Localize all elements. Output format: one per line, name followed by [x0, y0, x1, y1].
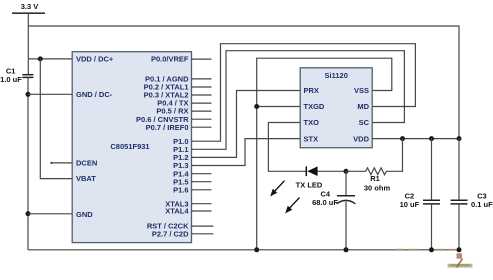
capacitor C1 plates	[22, 75, 33, 78]
wire P0.3 stub	[192, 94, 212, 96]
wire TXO to LED cathode	[268, 123, 305, 172]
wire VDD rail	[372, 138, 459, 140]
node C2 bottom junction dot	[429, 247, 434, 252]
svg-text:30 ohm: 30 ohm	[364, 183, 391, 192]
wire P1.0 to MD	[192, 44, 416, 142]
svg-text:GND: GND	[76, 210, 93, 219]
svg-text:Si1120: Si1120	[325, 71, 348, 80]
wire XTAL3 stub	[192, 203, 212, 205]
wire LED anode to junction	[318, 170, 346, 172]
wire P1.6 stub	[192, 189, 212, 191]
IC U1 C8051F931 body	[72, 52, 191, 243]
supply 3.3V bar	[12, 12, 45, 14]
wire P0.5 stub	[192, 110, 212, 112]
svg-text:68.0 uF: 68.0 uF	[312, 198, 338, 207]
svg-text:1.0 uF: 1.0 uF	[0, 75, 22, 84]
wire GND branch	[28, 213, 72, 215]
capacitor C2	[423, 139, 440, 250]
wire P0.2 stub	[192, 86, 212, 88]
node VBAT junction dot	[38, 56, 43, 61]
arrow emission 1	[270, 181, 284, 197]
arrow emission 2	[285, 198, 299, 214]
wire P0.6 stub	[192, 118, 212, 120]
wire DCEN stub	[52, 162, 73, 164]
svg-text:TXO: TXO	[304, 118, 320, 127]
svg-text:C1: C1	[6, 66, 16, 75]
svg-text:VBAT: VBAT	[76, 174, 96, 183]
node C3 bottom junction dot	[457, 247, 462, 252]
wire ground vertical left (C1 bottom to bottom rail)	[27, 77, 29, 249]
IC U2 Si1120 body	[300, 68, 372, 148]
svg-text:TXGD: TXGD	[304, 102, 325, 111]
wire P0.1 stub	[192, 78, 212, 80]
wire P1.2 to PRX	[192, 91, 301, 158]
node R1 top junction dot	[400, 136, 405, 141]
wire P1.4 stub	[192, 173, 212, 175]
wire 3.3V vertical down to C1	[27, 13, 29, 74]
svg-text:PRX: PRX	[304, 86, 319, 95]
node GND junction dot	[26, 211, 31, 216]
wire P0.7 stub	[192, 126, 212, 128]
LED D1 TX LED symbol	[306, 166, 317, 176]
resistor R1	[346, 139, 403, 175]
wire RST/C2CK stub	[192, 225, 214, 227]
svg-text:STX: STX	[304, 134, 319, 143]
svg-text:DCEN: DCEN	[76, 159, 97, 168]
svg-text:VDD: VDD	[353, 134, 369, 143]
svg-text:P2.7 / C2D: P2.7 / C2D	[152, 229, 189, 238]
svg-text:P0.0/VREF: P0.0/VREF	[151, 55, 189, 64]
node C2 top junction dot	[429, 136, 434, 141]
capacitor C4 (polarized)	[337, 171, 356, 250]
svg-text:VSS: VSS	[354, 86, 369, 95]
wire P1.1 to SC	[192, 51, 405, 150]
wire VBAT vertical	[40, 59, 72, 179]
wire GND/DC- branch	[28, 93, 72, 95]
node C3 top junction dot	[457, 136, 462, 141]
wire bottom ground rail	[28, 249, 461, 251]
svg-text:10 uF: 10 uF	[400, 200, 420, 209]
capacitor C3	[451, 139, 468, 250]
svg-text:XTAL4: XTAL4	[165, 207, 189, 216]
svg-text:3.3 V: 3.3 V	[21, 2, 39, 11]
node LED/R1/C4 junction dot	[344, 169, 349, 174]
node C4 bottom junction dot	[344, 247, 349, 252]
wire P1.5 stub	[192, 181, 212, 183]
node ground rail junction dot	[254, 247, 259, 252]
wire VSS to ground rail	[257, 58, 392, 250]
svg-text:TX LED: TX LED	[296, 181, 323, 190]
svg-text:VDD / DC+: VDD / DC+	[76, 55, 114, 64]
wire VDD/DC+ branch	[28, 58, 72, 60]
svg-text:C8051F931: C8051F931	[110, 142, 149, 151]
wire P0.0 stub	[192, 58, 212, 60]
svg-text:GND / DC-: GND / DC-	[76, 90, 113, 99]
svg-text:R1: R1	[370, 174, 380, 183]
svg-text:SC: SC	[359, 118, 370, 127]
wire TXGD branch	[257, 106, 301, 108]
node TXGD junction dot	[254, 104, 259, 109]
svg-text:MD: MD	[357, 102, 369, 111]
svg-text:P0.7 / IREF0: P0.7 / IREF0	[146, 123, 189, 132]
wire P2.7/C2D stub	[192, 233, 214, 235]
node GND/DC- junction dot	[26, 92, 31, 97]
svg-text:0.1 uF: 0.1 uF	[471, 200, 493, 209]
svg-text:P1.6: P1.6	[173, 185, 188, 194]
wire P1.3 to STX	[192, 139, 301, 166]
wire P0.4 stub	[192, 102, 212, 104]
wire top 3.3V rail to right side down to VDD rail	[28, 26, 459, 139]
watermark artifact	[395, 249, 473, 268]
wire XTAL4 stub	[192, 210, 212, 212]
